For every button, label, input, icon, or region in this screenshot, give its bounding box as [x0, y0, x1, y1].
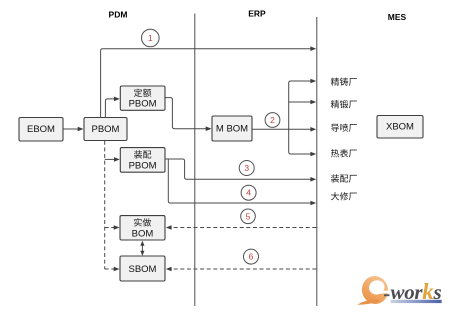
svg-text:PBOM: PBOM [129, 99, 157, 110]
svg-text:SBOM: SBOM [129, 264, 157, 275]
svg-text:4: 4 [246, 188, 251, 198]
svg-text:BOM: BOM [132, 229, 154, 240]
svg-text:2: 2 [270, 115, 275, 125]
svg-text:6: 6 [249, 252, 254, 262]
svg-text:EBOM: EBOM [27, 124, 55, 135]
svg-text:5: 5 [246, 211, 251, 221]
svg-text:3: 3 [244, 163, 249, 173]
svg-text:PBOM: PBOM [92, 124, 120, 135]
svg-text:ERP: ERP [248, 9, 266, 19]
svg-text:PBOM: PBOM [129, 161, 157, 172]
svg-text:PDM: PDM [109, 10, 128, 20]
svg-text:MES: MES [388, 12, 407, 22]
svg-text:XBOM: XBOM [386, 122, 414, 133]
svg-text:1: 1 [148, 33, 153, 43]
svg-text:M BOM: M BOM [216, 124, 248, 135]
